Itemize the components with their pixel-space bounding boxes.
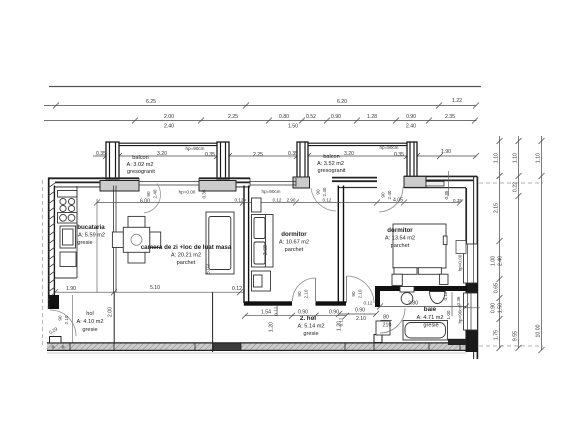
svg-text:90: 90 [58,315,63,321]
svg-text:2.15: 2.15 [494,203,500,213]
dormitor2 nightstand left [392,274,402,285]
svg-text:90: 90 [316,189,321,195]
baie door arc [380,308,405,333]
wall dormitor2/baie [375,286,467,291]
svg-text:2.25: 2.25 [253,152,263,158]
svg-text:2.40: 2.40 [406,124,416,130]
svg-text:gresie: gresie [303,331,318,337]
dining table [112,216,160,263]
balcony2 footing left [293,177,310,188]
balcony1 footing left [100,181,139,192]
bathtub [403,321,448,341]
right dim line 3 [539,136,545,353]
svg-text:1.10: 1.10 [513,153,519,163]
hol right wall [113,292,115,343]
room label living [141,244,232,266]
svg-text:2.10: 2.10 [358,289,363,298]
svg-text:bucataria: bucataria [77,224,105,231]
living extension line [96,199,98,292]
svg-text:A: 3.52 m2: A: 3.52 m2 [317,161,344,167]
svg-text:baie: baie [424,306,437,313]
interior wall living/dormitor1 [244,186,249,304]
svg-text:balcon: balcon [323,154,339,160]
kitchen counter [55,186,77,278]
svg-text:1.20: 1.20 [269,322,275,332]
svg-text:80: 80 [383,315,389,321]
svg-text:0.22: 0.22 [513,182,519,192]
svg-text:10.00: 10.00 [536,324,542,337]
svg-text:0.90: 0.90 [406,114,416,120]
top exterior wall segment dorm1/dorm2 [332,178,377,188]
right wall window dormitor2 hp=0.00 [456,241,477,284]
svg-text:4.05: 4.05 [393,198,403,204]
top exterior wall segment kitchen [48,178,139,187]
dormitor1 nightstand [252,271,271,291]
balcony 1 parapet rail [119,143,217,145]
wall baie left lower [375,334,380,343]
washing machine [376,321,390,335]
dormitor1 balcony door arc [311,188,336,211]
svg-text:2.40: 2.40 [498,256,504,266]
balcony 2 label [317,154,346,174]
svg-text:0.90: 0.90 [298,310,308,316]
dim labels row1 [146,98,462,105]
svg-text:0.35: 0.35 [453,198,462,203]
svg-text:dormitor: dormitor [281,231,307,238]
room label baie [416,306,443,329]
svg-text:2.40: 2.40 [153,189,158,198]
window living-balcony1 [139,178,199,187]
dim line hol/living bottom [52,289,244,295]
svg-text:hp=0.00: hp=0.00 [179,190,196,195]
svg-text:90: 90 [297,291,302,297]
sofa [206,212,234,274]
dorm2 window dim line [451,292,453,316]
right dim 1 labels [491,153,504,340]
kitchen divider wall [114,186,116,293]
svg-text:2.25: 2.25 [228,114,238,120]
right exterior wall [448,171,478,359]
svg-text:1.10: 1.10 [536,153,542,163]
svg-text:gresie: gresie [77,240,92,246]
svg-text:0.65: 0.65 [494,283,500,293]
interior wall 2hol top B [316,301,347,305]
svg-text:2.40: 2.40 [387,190,392,199]
dimension line top row2 [44,118,478,124]
svg-text:1.10: 1.10 [494,153,500,163]
balcony2 footing right [404,176,426,187]
svg-text:0.80: 0.80 [279,114,289,120]
interior wall dormitor1/dormitor2 [338,186,343,304]
svg-text:A: 4.71 m2: A: 4.71 m2 [416,315,443,321]
right dim 2 labels [513,153,519,341]
svg-text:1.28: 1.28 [367,114,377,120]
svg-text:3.20: 3.20 [157,151,167,157]
right wall window baie hp=90cm [464,293,481,330]
svg-text:gresie: gresie [423,323,438,329]
svg-text:90: 90 [351,291,356,297]
svg-text:0.35: 0.35 [202,189,207,198]
room label 2hol [297,315,324,337]
svg-text:gresogranit: gresogranit [127,169,155,175]
room label hol [76,311,103,333]
svg-text:5.02: 5.02 [206,264,212,274]
svg-text:0.12: 0.12 [232,286,242,292]
svg-text:2.10: 2.10 [64,315,69,324]
dim labels row2 [164,114,455,130]
balcony1 footing right [199,181,236,192]
svg-text:0.12: 0.12 [273,198,282,203]
svg-text:0.12: 0.12 [235,198,244,203]
entry door arc [50,310,76,336]
svg-text:3.20: 3.20 [344,151,354,157]
svg-text:2.90: 2.90 [287,198,296,203]
dim baie top [377,304,469,310]
dormitor1 dresser [252,198,262,212]
svg-text:2.10: 2.10 [356,316,366,322]
svg-text:0.36: 0.36 [456,296,461,305]
svg-text:6.20: 6.20 [337,99,347,105]
svg-text:1.50: 1.50 [498,303,504,313]
svg-text:6.25: 6.25 [146,99,156,105]
svg-text:gresogranit: gresogranit [318,168,346,174]
living/2hol boundary wall [212,292,214,352]
top reference line [49,86,481,88]
door1 2hol-dormitor1 arc [293,278,316,301]
baie door label 80/210 [381,315,393,329]
svg-text:0.12: 0.12 [364,301,373,306]
living balcony door arc [144,184,161,214]
svg-text:5.10: 5.10 [150,285,160,291]
svg-text:0.12: 0.12 [323,198,332,203]
svg-text:1.75: 1.75 [494,330,500,340]
svg-text:1.00: 1.00 [491,256,497,266]
svg-text:0.90: 0.90 [355,308,365,314]
balcony 2 left pillar [297,142,308,178]
svg-text:2.00: 2.00 [164,114,174,120]
dashed line left of plan [42,180,44,345]
balcony 2 right pillar [407,142,417,178]
svg-text:2.10: 2.10 [304,289,309,298]
svg-text:0.52: 0.52 [306,114,316,120]
svg-text:A: 13.54 m2: A: 13.54 m2 [385,236,415,242]
svg-text:0.35: 0.35 [96,151,106,157]
svg-text:balcon: balcon [132,155,148,161]
svg-text:3.68: 3.68 [263,245,269,255]
balcony 2 parapet rail [308,143,407,145]
svg-text:1.00: 1.00 [446,310,451,319]
svg-text:2.40: 2.40 [164,124,174,130]
dim line 2hol [242,313,349,319]
svg-text:0.90: 0.90 [491,303,497,313]
svg-text:A: 5.14 m2: A: 5.14 m2 [297,324,324,330]
balcony 1 left pillar [106,142,119,179]
svg-text:6.00: 6.00 [140,199,150,205]
extension line [276,306,278,316]
svg-text:A: 10.67 m2: A: 10.67 m2 [279,240,309,246]
svg-text:9.55: 9.55 [513,331,519,341]
svg-text:0.35: 0.35 [444,190,449,199]
step notch near baie [374,335,382,343]
svg-text:0.12: 0.12 [443,291,448,300]
right dim 3 labels [536,153,542,338]
dormitor1 bed [252,215,274,268]
dashed tie lines right [479,183,543,346]
svg-text:1.90: 1.90 [66,286,76,292]
svg-text:parchet: parchet [285,247,304,253]
balcony 1 label [126,155,155,175]
svg-text:camera de zi +loc de luat masa: camera de zi +loc de luat masa [141,244,232,251]
balcony dim labels [96,145,451,158]
svg-text:0.35: 0.35 [394,152,404,158]
svg-text:90: 90 [146,191,151,197]
right dim line 1 [497,136,503,351]
dimension line balcony row [93,153,479,159]
svg-text:parchet: parchet [177,260,196,266]
entry step [50,337,62,343]
dormitor2 nightstand right [440,274,448,284]
svg-text:dormitor: dormitor [387,227,413,234]
svg-text:0.90: 0.90 [331,114,341,120]
bathroom sink [430,292,446,304]
svg-text:1.20: 1.20 [337,321,343,331]
svg-text:1.90: 1.90 [441,149,451,155]
room label bucatarie [77,224,105,246]
svg-text:gresie: gresie [82,327,97,333]
wall baie left upper [375,286,380,307]
dimension line top row1 [44,103,479,109]
left exterior wall [48,178,59,309]
hol vestibule line [72,295,74,343]
svg-text:hol: hol [86,311,93,317]
svg-text:0.12: 0.12 [274,306,279,315]
svg-text:90: 90 [381,192,386,198]
toilet [400,287,414,305]
room label dormitor1 [279,231,309,253]
svg-text:1.54: 1.54 [261,310,271,316]
top exterior wall segment living/dorm1 [199,178,250,187]
door2 2hol-dormitor2 arc [347,276,375,303]
svg-text:A: 4.10 m2: A: 4.10 m2 [76,319,103,325]
window dormitor1 hp=90 [250,178,296,187]
top exterior wall segment dorm2 right [404,176,477,187]
svg-text:1.22: 1.22 [452,98,462,104]
svg-text:210: 210 [383,323,392,329]
room label dormitor2 [385,227,415,249]
balcony 1 right pillar [217,142,229,179]
svg-text:2.35: 2.35 [445,114,455,120]
window dormitor2 sill [426,182,444,187]
svg-text:2.40: 2.40 [322,187,327,196]
dormitor2 balcony door arc [379,187,403,212]
svg-text:hp=90cm: hp=90cm [261,189,280,194]
svg-text:0.90: 0.90 [329,310,339,316]
svg-text:A: 5.59 m2: A: 5.59 m2 [78,233,105,239]
svg-text:2.80: 2.80 [408,301,418,307]
svg-text:hp=90cm: hp=90cm [185,146,204,151]
svg-text:A: 3.02 m2: A: 3.02 m2 [126,162,153,168]
svg-text:hp=90cm: hp=90cm [458,304,463,323]
svg-text:0.35: 0.35 [205,152,215,158]
svg-text:2.00: 2.00 [108,307,114,317]
dim door dormitor2 lower [336,311,379,317]
dormitor2 bed [393,224,447,274]
interior wall 2hol top A [244,301,292,305]
svg-text:1.50: 1.50 [288,124,298,130]
dim line upper rooms [94,200,463,206]
right dim line 2 [516,136,522,351]
svg-text:A: 20.21 m2: A: 20.21 m2 [171,253,201,259]
svg-text:parchet: parchet [391,243,410,249]
svg-text:hp=0.00: hp=0.00 [458,254,463,271]
